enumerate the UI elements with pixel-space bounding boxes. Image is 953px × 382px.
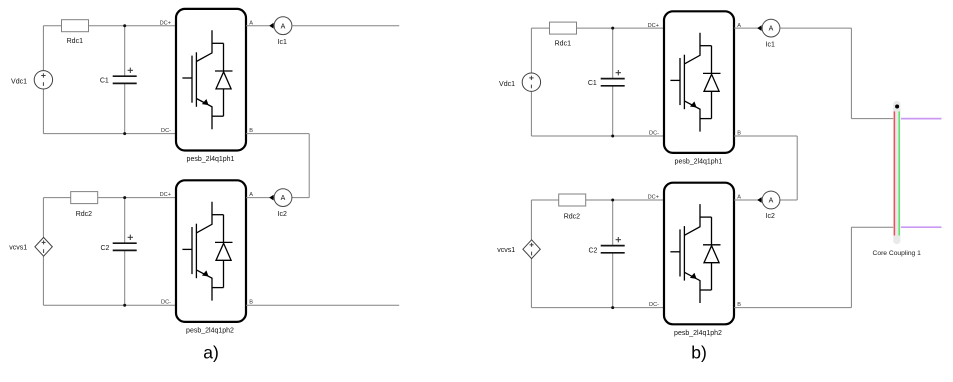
wire bottom-right of coupling (purple net)	[901, 226, 942, 228]
svg-text:Vdc1: Vdc1	[499, 81, 515, 88]
junction C1/bottom rail b	[611, 135, 614, 138]
ammeter Ic1 a : body	[274, 17, 292, 35]
svg-text:DC-: DC-	[161, 300, 171, 306]
svg-text:Rdc1: Rdc1	[555, 40, 571, 47]
polarity + of C1	[616, 70, 621, 75]
wire left down to vcvs1 a	[42, 198, 44, 238]
junction C1/top rail b	[611, 27, 614, 30]
resistor Rdc2	[71, 192, 98, 204]
voltage source Vdc1	[34, 71, 52, 89]
svg-text:vcvs1: vcvs1	[9, 245, 27, 252]
polarity + of C2	[128, 235, 133, 240]
svg-text:C1: C1	[100, 77, 109, 84]
svg-text:Ic2: Ic2	[766, 213, 775, 220]
svg-text:Rdc1: Rdc1	[67, 38, 83, 45]
junction C2/top rail a	[123, 196, 126, 199]
capacitor C2	[601, 246, 625, 253]
svg-text:A: A	[281, 23, 286, 30]
wire down to Ic2 row a	[308, 134, 310, 198]
svg-text:Ic1: Ic1	[766, 41, 775, 48]
emitter arrow of IGBT in pesb_2l4q1ph1	[202, 99, 209, 105]
junction C2/bottom rail b	[611, 306, 614, 309]
junction C1/bottom rail a	[123, 132, 126, 135]
freewheeling diode inside pesb_2l4q1ph1	[212, 43, 233, 116]
wire DC- rail lower b	[531, 307, 664, 309]
svg-text:Core Coupling 1: Core Coupling 1	[873, 250, 922, 257]
ammeter Ic2 b : arrow	[757, 197, 761, 203]
svg-text:Vdc1: Vdc1	[11, 79, 27, 86]
controlled source vcvs1	[523, 240, 540, 259]
wire C2 bottom branch b	[612, 253, 614, 308]
svg-text:DC+: DC+	[648, 194, 659, 200]
wire Vdc1 to bottom rail a	[42, 89, 44, 134]
voltage source Vdc1	[522, 73, 540, 91]
svg-text:DC-: DC-	[161, 128, 171, 134]
capacitor C1	[601, 79, 625, 86]
wire up to coupling bottom (b)	[850, 227, 852, 307]
junction C2/bottom rail a	[123, 304, 126, 307]
wire C1 bottom branch a	[124, 83, 126, 133]
wire A to ammeter Ic2 b	[734, 199, 762, 201]
svg-text:C2: C2	[588, 247, 597, 254]
wire left down to vcvs1 b	[530, 200, 532, 240]
svg-text:pesb_2l4q1ph1: pesb_2l4q1ph1	[675, 159, 723, 166]
svg-text:A: A	[737, 194, 741, 200]
svg-text:A: A	[769, 198, 774, 205]
svg-text:pesb_2l4q1ph2: pesb_2l4q1ph2	[186, 328, 234, 335]
wire top-right of coupling (purple net)	[901, 118, 942, 120]
svg-text:Ic2: Ic2	[278, 211, 287, 218]
wire lower top rail left b	[531, 199, 558, 201]
core coupling winding 1 (red)	[893, 111, 895, 235]
svg-text:DC-: DC-	[649, 302, 659, 308]
wire lower top rail to DC+ a	[98, 197, 176, 199]
emitter arrow of IGBT in pesb_2l4q1ph2	[202, 270, 209, 276]
svg-text:A: A	[249, 192, 253, 198]
ammeter Ic1 a : arrow	[269, 23, 273, 29]
freewheeling diode inside pesb_2l4q1ph2	[700, 217, 721, 290]
wire Ic2 to vertical b	[780, 199, 797, 201]
core coupling component Core Coupling 1	[893, 101, 900, 244]
wire down to Ic2 row b	[796, 136, 798, 200]
wire top rail to DC+ b	[577, 27, 665, 29]
subsystem block pesb_2l4q1ph2	[176, 180, 246, 322]
wire C1 bottom branch b	[612, 86, 614, 136]
core coupling polarity dot	[895, 105, 899, 109]
svg-text:a): a)	[203, 343, 219, 363]
svg-text:C2: C2	[100, 245, 109, 252]
ammeter Ic2 a : arrow	[269, 195, 273, 201]
core coupling winding 2 (green)	[898, 111, 900, 235]
ammeter Ic1 b : body	[762, 19, 780, 37]
ammeter Ic1 b : arrow	[757, 25, 761, 31]
ammeter Ic2 b : body	[762, 191, 780, 209]
wire lower top rail to DC+ b	[586, 199, 664, 201]
subsystem block pesb_2l4q1ph2	[664, 183, 734, 325]
svg-text:pesb_2l4q1ph2: pesb_2l4q1ph2	[674, 330, 722, 337]
wire vcvs1 to bottom rail a	[42, 256, 44, 305]
wire Ic1 to corner (b)	[780, 27, 852, 29]
resistor Rdc1	[550, 22, 577, 34]
wire A to ammeter Ic1 b	[734, 27, 762, 29]
svg-text:DC+: DC+	[160, 192, 171, 198]
svg-text:Rdc2: Rdc2	[76, 211, 92, 218]
wire C1 top branch b	[612, 28, 614, 79]
wire B output (b)	[734, 307, 851, 309]
svg-text:pesb_2l4q1ph1: pesb_2l4q1ph1	[187, 156, 235, 163]
freewheeling diode inside pesb_2l4q1ph2	[212, 215, 233, 288]
wire B of block1 a	[246, 133, 309, 135]
svg-text:DC-: DC-	[649, 131, 659, 137]
svg-text:A: A	[769, 26, 774, 33]
wire C2 bottom branch a	[124, 250, 126, 305]
svg-text:Rdc2: Rdc2	[564, 214, 580, 221]
freewheeling diode inside pesb_2l4q1ph1	[700, 46, 721, 119]
junction C2/top rail b	[611, 199, 614, 202]
wire DC- rail upper a	[43, 133, 176, 135]
transistor IGBT inside pesb_2l4q1ph2	[670, 204, 700, 303]
wire DC- rail lower a	[43, 304, 176, 306]
wire C2 top branch a	[124, 198, 126, 244]
svg-text:A: A	[281, 195, 286, 202]
wire vcvs1 to bottom rail b	[530, 259, 532, 308]
capacitor C1	[113, 76, 137, 83]
controlled source vcvs1	[35, 237, 52, 256]
wire Ic2 to vertical a	[292, 197, 309, 199]
wire left down to Vdc1 b	[530, 28, 532, 73]
svg-text:Ic1: Ic1	[278, 39, 287, 46]
wire DC- rail upper b	[531, 135, 664, 137]
wire into coupling top-left pin (b)	[851, 118, 894, 120]
polarity + of C2	[616, 237, 621, 242]
resistor Rdc2	[559, 194, 586, 206]
junction C1/top rail a	[123, 24, 126, 27]
wire top rail to DC+ a	[89, 25, 177, 27]
svg-text:C1: C1	[588, 80, 597, 87]
emitter arrow of IGBT in pesb_2l4q1ph2	[690, 273, 697, 279]
transistor IGBT inside pesb_2l4q1ph2	[182, 202, 212, 301]
wire A to ammeter Ic1 a	[246, 25, 274, 27]
wire C2 top branch b	[612, 200, 614, 246]
emitter arrow of IGBT in pesb_2l4q1ph1	[690, 101, 697, 107]
transistor IGBT inside pesb_2l4q1ph1	[182, 30, 212, 129]
wire down to coupling top (b)	[850, 28, 852, 119]
wire top rail left b	[531, 27, 550, 29]
capacitor C2	[113, 243, 137, 250]
wire top rail left a	[43, 25, 62, 27]
wire C1 top branch a	[124, 26, 126, 76]
wire Vdc1 to bottom rail b	[530, 91, 532, 136]
svg-text:DC+: DC+	[160, 21, 171, 27]
subsystem block pesb_2l4q1ph1	[664, 11, 734, 153]
wire A to ammeter Ic2 a	[246, 197, 274, 199]
svg-text:DC+: DC+	[648, 23, 659, 29]
polarity + of C1	[128, 68, 133, 73]
transistor IGBT inside pesb_2l4q1ph1	[670, 33, 700, 132]
ammeter Ic2 a : body	[274, 189, 292, 207]
svg-text:b): b)	[691, 343, 707, 363]
wire left down to Vdc1 a	[42, 26, 44, 71]
resistor Rdc1	[62, 20, 89, 32]
subsystem block pesb_2l4q1ph1	[176, 9, 246, 151]
wire phase B output stub (a)	[246, 304, 399, 306]
wire B of block1 b	[734, 135, 797, 137]
wire lower top rail left a	[43, 197, 70, 199]
wire phase A output stub (a)	[292, 25, 399, 27]
svg-text:vcvs1: vcvs1	[497, 247, 515, 254]
wire into coupling bottom-left pin (b)	[851, 226, 894, 228]
